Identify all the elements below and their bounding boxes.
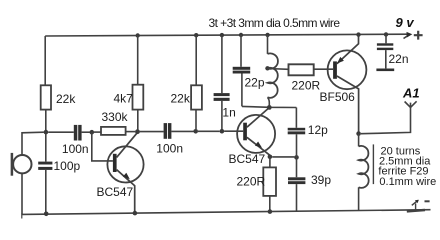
resistor R5 220R (emitter) (237, 157, 277, 212)
wire: coil tap to R6 (268, 68, 289, 71)
battery terminal +9V (396, 15, 423, 39)
node: collector / coil / tank junction (267, 105, 272, 110)
node: C2/R3/Q1 base junction (90, 130, 95, 135)
node: Q1 emitter to ground rail (133, 211, 138, 216)
transistor Q2 BC547 (oscillator) (229, 108, 276, 166)
wire: base bus segment (198, 130, 220, 132)
wire: antenna feed (361, 107, 411, 133)
node: C6/C7 junction (294, 155, 299, 160)
node: coil tap (265, 66, 269, 70)
svg-text:BC547: BC547 (97, 185, 134, 199)
svg-text:100p: 100p (54, 159, 81, 173)
capacitor C7 39p (288, 157, 331, 211)
svg-text:100n: 100n (156, 141, 183, 155)
resistor R1 22k (41, 85, 77, 130)
resistor R3 330k (feedback) (94, 110, 135, 135)
svg-text:100n: 100n (62, 142, 89, 156)
wire: Q1 base tap (92, 132, 113, 161)
ground / battery negative terminal (407, 200, 430, 212)
svg-text:3t +3t 3mm dia 0.5mm wire: 3t +3t 3mm dia 0.5mm wire (209, 16, 341, 30)
wire: rail overshoot stub bottom-left (21, 214, 23, 219)
svg-text:BC547: BC547 (229, 152, 266, 166)
svg-text:39p: 39p (311, 173, 331, 187)
node: C1 to ground rail (44, 212, 49, 217)
svg-text:BF506: BF506 (320, 90, 356, 104)
svg-text:220R: 220R (237, 174, 266, 188)
capacitor C5 22p (tank) (233, 33, 265, 107)
svg-text:4k7: 4k7 (114, 92, 134, 106)
wire: tank circuit node (242, 106, 296, 107)
svg-text:22k: 22k (56, 92, 76, 106)
wire: to Q2 base (224, 130, 243, 132)
node: Q1 collector / R2 / R3 junction (135, 129, 140, 134)
resistor R2 4k7 (114, 33, 144, 129)
capacitor C6 12p (288, 108, 328, 158)
capacitor C8 22n (supply decoupling) (376, 32, 408, 71)
svg-text:330k: 330k (102, 110, 129, 124)
inductor L1 3t+3t tank coil (265, 33, 278, 106)
ferrite core line (372, 144, 374, 184)
node: R5 to ground rail (268, 209, 273, 214)
wire: top +9V rail (45, 34, 409, 36)
svg-text:22k: 22k (171, 91, 191, 105)
capacitor C4 1n (214, 33, 236, 129)
microphone MIC (12, 132, 44, 214)
node: Q3 collector / antenna / L2 junction (356, 131, 361, 136)
svg-text:220R: 220R (292, 78, 321, 92)
wire: emitter to divider caps (272, 156, 294, 158)
svg-text:0.1mm wire: 0.1mm wire (379, 176, 436, 188)
capacitor C1 100p (38, 134, 80, 214)
node: junction R1/C1/mic/C2 (44, 130, 49, 135)
wire: bottom ground rail (22, 210, 431, 215)
wire: left rail down to R1 (44, 36, 46, 85)
resistor R4 22k (171, 33, 202, 129)
svg-text:9 v: 9 v (396, 15, 415, 30)
svg-text:12p: 12p (308, 123, 328, 137)
capacitor C2 100n (input coupling) (48, 125, 90, 156)
resistor R6 220R (to Q3 base) (289, 64, 334, 92)
node: Q3 emitter to rail (356, 32, 360, 36)
label: L2 winding data (378, 146, 436, 188)
capacitor C3 100n (interstage coupling) (156, 123, 193, 155)
svg-text:1n: 1n (222, 106, 235, 120)
transistor Q3 BF506 (output, PNP) (320, 35, 367, 131)
node: Q2 emitter junction (268, 155, 273, 160)
svg-text:A1: A1 (402, 86, 420, 101)
node: R4 bottom junction (193, 129, 198, 134)
transistor Q1 BC547 (97, 133, 144, 214)
inductor L2 antenna coil 20 turns (359, 134, 369, 211)
wire: Q1 collector to C3 (140, 131, 164, 133)
antenna A1 (402, 86, 420, 108)
svg-text:22n: 22n (389, 52, 409, 66)
node: C4 bottom junction (220, 129, 225, 134)
svg-text:22p: 22p (245, 76, 265, 90)
